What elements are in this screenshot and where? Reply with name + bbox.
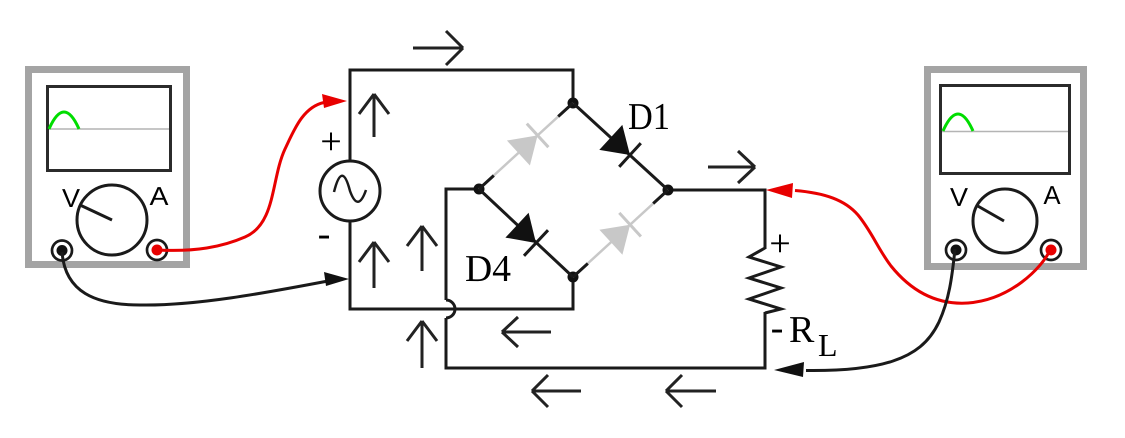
label RL [790,317,836,356]
wire top node riser [572,69,575,104]
multimeter M1 frame [25,66,190,268]
node top [568,98,579,109]
wire hop to bottom corner [446,318,765,370]
wire bottom node riser [572,277,575,311]
test lead black M2 to load bottom [774,249,955,377]
label + (load) [771,235,789,253]
label + (source) [322,133,340,151]
wire right node to load [668,190,767,249]
multimeter M2 label A [1044,186,1061,204]
multimeter M2 black terminal [946,240,966,260]
wire hop over [446,300,455,318]
current arrow top [413,31,463,65]
multimeter M1 display [48,87,171,171]
multimeter M1 dial [77,185,147,255]
test lead red M1 to source [158,94,347,250]
wire resistor bottom [764,312,767,370]
current arrow right (load top) [708,151,755,183]
diode D2 (off, gray) [479,103,573,189]
diode D3 (off, gray) [573,190,668,277]
multimeter M2 dial [973,189,1037,253]
node right [663,185,674,196]
multimeter M2 dial needle [976,205,1004,221]
current arrow up (source bottom a) [359,242,389,288]
multimeter M2 frame [924,66,1087,270]
resistor RL zigzag [749,248,781,313]
label - (load) [772,330,782,333]
multimeter M1 waveform (half sine) [49,112,79,129]
wire source bottom vertical [349,221,352,311]
wire top horizontal [350,69,573,72]
multimeter M1 label V [62,189,80,207]
current arrow up (source bottom b) [407,226,437,271]
current arrow left (mid) [502,317,551,347]
current arrow up (source top) [359,94,389,137]
multimeter M2 display baseline [942,131,1068,133]
label D1 [629,104,668,129]
multimeter M1 red terminal [147,240,167,260]
wire top-left vertical to source [349,69,352,162]
multimeter M2 label V [950,188,968,206]
label D4 [466,256,510,281]
wire bottom-mid horizontal [349,308,574,311]
diode D1 [573,103,668,190]
current arrow left (bottom left) [532,375,581,407]
multimeter M1 dial needle [80,205,112,220]
node bottom [568,272,579,283]
test lead black M1 to source-bottom [62,252,349,305]
multimeter M2 waveform (half sine) [943,114,973,131]
multimeter M2 red terminal [1041,240,1061,260]
node left [474,184,485,195]
label - (source) [319,236,329,239]
multimeter M1 label A [150,187,169,205]
current arrow up (below mid wire) [407,321,437,368]
AC source V1 [320,161,380,221]
current arrow left (bottom right) [666,375,716,407]
wire left node to hop [446,188,479,301]
multimeter M1 black terminal [52,241,72,261]
multimeter M2 display [941,86,1070,174]
diode D4 [479,189,573,277]
test lead red M2 to load top [766,183,1050,303]
multimeter M1 display baseline [49,128,169,130]
